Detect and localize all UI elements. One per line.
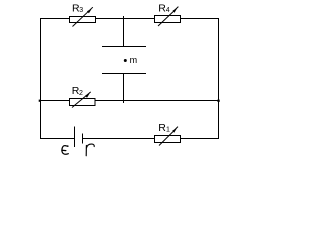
droplet m (dot between plates) xyxy=(124,59,127,62)
svg-text:1: 1 xyxy=(166,126,170,133)
resistor R2 arrow xyxy=(72,92,91,108)
label r (internal resistance) xyxy=(86,144,94,156)
junction: middle wire with right wire xyxy=(217,100,219,102)
wire: left vertical xyxy=(40,18,42,139)
battery epsilon short plate xyxy=(82,134,84,144)
svg-text:3: 3 xyxy=(79,7,83,14)
wire: middle horizontal xyxy=(40,100,218,102)
wire: bottom left segment (to battery) xyxy=(40,138,75,140)
svg-text:m: m xyxy=(130,55,138,65)
resistor R4 body xyxy=(155,16,181,23)
capacitor C bottom plate xyxy=(102,73,146,75)
svg-text:2: 2 xyxy=(79,90,83,97)
resistor R3 arrow xyxy=(73,7,93,26)
battery epsilon long plate xyxy=(74,126,76,147)
junction: middle wire with left wire xyxy=(39,100,41,102)
label epsilon (emf) xyxy=(62,145,69,154)
resistor R4 arrow xyxy=(158,7,178,26)
wire: top capacitor lead xyxy=(123,16,125,47)
wire: bottom right segment (from battery) xyxy=(83,138,219,140)
resistor R3 body xyxy=(70,17,96,23)
resistor R2 body xyxy=(70,99,96,106)
svg-text:4: 4 xyxy=(166,7,170,14)
resistor R1 body xyxy=(155,136,181,143)
wire: right vertical xyxy=(218,18,220,139)
capacitor C top plate xyxy=(102,46,146,48)
resistor R1 arrow xyxy=(159,127,178,146)
wire: top horizontal xyxy=(40,18,218,20)
wire: bottom capacitor lead xyxy=(123,74,125,103)
